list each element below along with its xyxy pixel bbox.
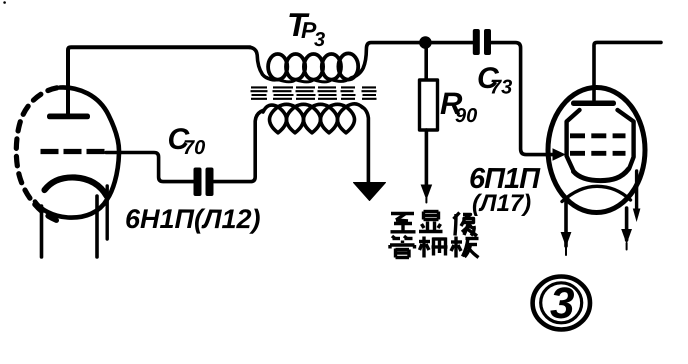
V1 lead (right outer short) [105, 186, 108, 239]
V1 plate bar [47, 114, 90, 120]
Chinese label line2: 管栅板 [390, 236, 479, 258]
tube V2 envelope [548, 88, 645, 213]
capacitor C70 plates [194, 168, 214, 197]
char 像 [455, 214, 456, 236]
V2 cathode lead short with arrow [635, 171, 638, 215]
svg-text:3: 3 [550, 279, 575, 328]
transformer TP3 primary winding loops [267, 53, 358, 81]
char 栅 [422, 237, 425, 258]
transformer TP3 secondary winding (loops hanging below top wave) [263, 104, 363, 133]
V2 grid arrowhead [553, 148, 566, 161]
tube V1 envelope solid right side [35, 87, 119, 217]
V2 beam plate right [618, 110, 634, 169]
figure number circle 3 [533, 277, 590, 330]
wire: C73 to V2 grid with corner [491, 43, 554, 155]
svg-text:73: 73 [490, 77, 512, 99]
char 管 [392, 236, 395, 239]
V2 control grid (dashed) [570, 151, 626, 156]
wire: node down to R90 [424, 47, 428, 80]
V1 grid (dashed) [41, 149, 105, 154]
V2 lead middle with arrow [625, 208, 629, 240]
svg-text:70: 70 [183, 137, 205, 159]
wire: V2 plate lead to top right [594, 42, 661, 100]
V2 cathode arc [574, 169, 629, 181]
V2 lead left with arrow [564, 198, 568, 246]
wire: V1 grid lead to C70 [106, 153, 194, 182]
tube V1 envelope dashed left side [16, 88, 63, 223]
ground symbol [354, 183, 386, 201]
wire: transformer primary right exit curve to top wire [351, 43, 420, 78]
transformer core (laminations) [251, 87, 377, 98]
V2 beam plate left [567, 110, 580, 171]
V1 cathode arc [45, 177, 108, 196]
resistor R90 [420, 80, 438, 130]
node (junction dot) [419, 36, 432, 49]
svg-text:(Л17): (Л17) [472, 190, 531, 217]
V2 plate bar [571, 101, 616, 107]
svg-text:6Н1П(Л12): 6Н1П(Л12) [125, 204, 261, 234]
wire: node to C73 [431, 41, 473, 45]
char 板 [454, 237, 457, 258]
speck top-left [3, 1, 6, 4]
capacitor C73 plates [473, 29, 491, 55]
V2 inner bottom arc (lens) [562, 186, 631, 201]
wire: secondary left lead down to C70 wire [214, 111, 263, 182]
svg-text:90: 90 [455, 105, 477, 127]
wire below R90 with arrow [425, 130, 429, 186]
V2 screen grid (dashed) [570, 133, 626, 138]
char 至 [391, 212, 414, 215]
wire: transformer primary left entry curve [249, 47, 270, 79]
V1 lead (cathode, left) [40, 206, 44, 257]
V1 lead (right inner) [95, 196, 99, 257]
Chinese label line1: 至显像 [391, 212, 478, 237]
wire: secondary right lead down to ground [362, 107, 369, 184]
char 显 [424, 210, 439, 213]
wire: V1 plate lead and top-left horizontal wire to transformer primary [68, 47, 250, 114]
svg-text:3: 3 [314, 29, 325, 51]
